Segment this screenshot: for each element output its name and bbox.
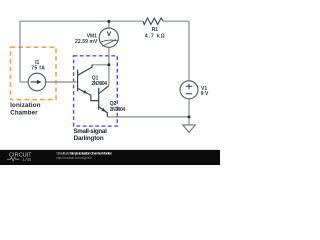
svg-text:CircuitLab / Simple Ionization: CircuitLab / Simple Ionization Chamber M… <box>56 151 112 155</box>
svg-text:22.59 mV: 22.59 mV <box>75 39 98 45</box>
svg-text:9 V: 9 V <box>201 91 209 97</box>
svg-text:75 fA: 75 fA <box>31 65 45 71</box>
svg-text:2N3904: 2N3904 <box>91 81 107 87</box>
svg-text:V: V <box>107 31 112 38</box>
svg-text:2N3904: 2N3904 <box>110 107 126 113</box>
svg-text:LAB: LAB <box>23 157 32 162</box>
svg-text:R1: R1 <box>152 27 159 33</box>
svg-text:Darlington: Darlington <box>74 135 104 142</box>
svg-text:http://circuitlab.com/c6yp96b: http://circuitlab.com/c6yp96b <box>56 156 92 160</box>
svg-text:4.7 kΩ: 4.7 kΩ <box>145 33 165 39</box>
svg-text:Small-signal: Small-signal <box>73 128 107 135</box>
svg-text:Ionization: Ionization <box>10 102 41 109</box>
svg-text:Chamber: Chamber <box>10 109 38 116</box>
